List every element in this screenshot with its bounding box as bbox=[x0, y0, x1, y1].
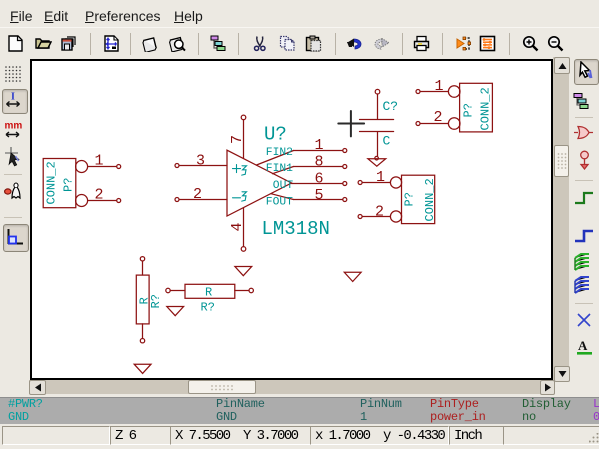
bottom plate bbox=[360, 131, 394, 133]
pin 1 FIN2 wire bbox=[294, 150, 343, 152]
svg-text:OUT: OUT bbox=[273, 180, 294, 192]
gnd triangle bbox=[368, 159, 386, 167]
pin 1 wire bbox=[362, 182, 390, 184]
pin 2 wire bbox=[235, 290, 249, 292]
ground symbol bottom left bbox=[134, 364, 151, 373]
svg-text:6: 6 bbox=[315, 170, 324, 187]
pin 1 end circle bbox=[166, 288, 170, 292]
pin 1 wire bbox=[142, 261, 144, 275]
connector body rectangle bbox=[460, 83, 493, 132]
svg-text:2: 2 bbox=[193, 186, 202, 203]
pin 2 wire (- input) bbox=[179, 199, 227, 201]
svg-text:P?: P? bbox=[462, 103, 476, 117]
connector P? CONN_2 (left) bbox=[43, 153, 121, 208]
horizontal scrollbar bbox=[29, 380, 553, 394]
svg-text:CONN_2: CONN_2 bbox=[479, 87, 493, 130]
top toolbar bbox=[0, 27, 599, 59]
minus input marker bbox=[233, 197, 241, 199]
pin 1 wire bbox=[420, 91, 448, 93]
pin 2 end circle bbox=[416, 122, 420, 126]
ground symbol below capacitor bbox=[368, 156, 386, 166]
pin 2 end circle bbox=[358, 215, 362, 219]
canvas with schematic bbox=[30, 59, 553, 380]
pin 2 bump bbox=[76, 195, 88, 207]
svg-text:C?: C? bbox=[383, 99, 399, 114]
pin 7 end circle bbox=[241, 115, 246, 120]
left toolbar bbox=[0, 58, 30, 380]
cursor crosshair bbox=[338, 111, 364, 136]
pin end circle bbox=[375, 156, 379, 160]
pin 2 end circle bbox=[117, 199, 121, 203]
pin 8 FIN1 diagonal bbox=[273, 167, 294, 174]
pin 5 FOUT wire bbox=[294, 199, 343, 201]
pin 1 bump bbox=[448, 86, 460, 98]
pin 2 bump bbox=[390, 211, 401, 222]
resistor body bbox=[136, 275, 149, 324]
pin 1 end circle bbox=[343, 149, 347, 153]
triangle body bbox=[227, 150, 292, 216]
pin 3 end circle bbox=[175, 164, 179, 168]
svg-text:1: 1 bbox=[435, 78, 444, 95]
svg-text:2: 2 bbox=[95, 187, 104, 204]
connector P? CONN_2 (middle right, mirrored) bbox=[358, 169, 437, 223]
pin 1 bump bbox=[390, 177, 401, 188]
pin 1 end circle bbox=[117, 165, 121, 169]
svg-text:4: 4 bbox=[229, 222, 246, 231]
plus input marker bbox=[233, 165, 241, 173]
svg-text:R?: R? bbox=[201, 301, 215, 315]
svg-text:CONN_2: CONN_2 bbox=[45, 161, 59, 204]
svg-text:R?: R? bbox=[149, 294, 163, 308]
pin 1 FIN2 diagonal bbox=[257, 151, 294, 166]
op-amp U? LM318N bbox=[175, 115, 347, 251]
pin 2 wire bbox=[420, 123, 448, 125]
pin 1 end circle bbox=[416, 90, 420, 94]
top plate bbox=[360, 119, 394, 121]
svg-text:3: 3 bbox=[196, 152, 205, 169]
svg-text:C: C bbox=[383, 134, 391, 149]
pin 1 end circle bbox=[140, 257, 144, 261]
pin 6 OUT wire bbox=[292, 183, 343, 185]
svg-text:5: 5 bbox=[315, 187, 324, 204]
pin 3 wire (+ input) bbox=[179, 165, 227, 167]
svg-text:1: 1 bbox=[315, 137, 324, 154]
svg-text:LM318N: LM318N bbox=[262, 218, 330, 240]
pin 4 wire (V-) bbox=[243, 208, 245, 247]
pin 6 end circle bbox=[343, 182, 347, 186]
pin 2 wire bbox=[377, 132, 379, 156]
pin 1 end circle bbox=[358, 181, 362, 185]
svg-text:FIN1: FIN1 bbox=[266, 163, 293, 175]
svg-text:A: A bbox=[578, 338, 588, 353]
connector body rectangle bbox=[43, 159, 76, 208]
pin name 2 glyph bbox=[242, 192, 247, 201]
resistor R? (horizontal) bbox=[166, 284, 254, 314]
svg-text:R: R bbox=[205, 286, 212, 300]
status bar bbox=[0, 424, 599, 449]
pin 8 FIN1 wire bbox=[294, 166, 343, 168]
pin 8 end circle bbox=[343, 165, 347, 169]
right toolbar bbox=[570, 58, 599, 380]
svg-text:U?: U? bbox=[264, 124, 287, 146]
svg-text:FIN2: FIN2 bbox=[266, 147, 293, 159]
resistor body bbox=[185, 284, 235, 298]
pin 2 end circle bbox=[175, 198, 179, 202]
svg-text:2: 2 bbox=[375, 203, 384, 220]
pin 5 end circle bbox=[343, 198, 347, 202]
svg-text:CONN_2: CONN_2 bbox=[423, 178, 437, 221]
vertical scrollbar bbox=[553, 57, 569, 380]
pin 2 end circle bbox=[249, 288, 253, 292]
pin 1 wire bbox=[377, 94, 379, 119]
svg-text:2: 2 bbox=[434, 109, 443, 126]
svg-text:I: I bbox=[11, 92, 15, 103]
pin 1 wire bbox=[88, 166, 117, 168]
pin 5 FOUT diagonal bbox=[271, 194, 294, 200]
ground symbol below op-amp pin 4 bbox=[235, 267, 252, 276]
svg-text:P?: P? bbox=[62, 178, 76, 192]
pin 2 bump bbox=[448, 118, 460, 130]
pin 1 wire bbox=[170, 290, 185, 292]
pin 4 end circle bbox=[241, 247, 246, 252]
svg-text:FOUT: FOUT bbox=[266, 197, 293, 209]
svg-text:P?: P? bbox=[403, 192, 417, 206]
pin 2 wire bbox=[362, 216, 390, 218]
ground symbol left of horizontal resistor bbox=[167, 307, 184, 316]
pin name 3 glyph bbox=[242, 166, 247, 175]
ground symbol right of op-amp area bbox=[344, 272, 361, 281]
pin 7 wire (V+) bbox=[243, 120, 245, 159]
svg-text:7: 7 bbox=[229, 135, 246, 144]
connector body rectangle bbox=[402, 175, 435, 223]
svg-text:8: 8 bbox=[315, 153, 324, 170]
pin 2 end circle bbox=[140, 339, 144, 343]
pin 2 wire bbox=[88, 200, 117, 202]
pin 2 wire bbox=[142, 324, 144, 339]
svg-text:1: 1 bbox=[95, 153, 104, 170]
menu bar bbox=[0, 0, 599, 27]
resistor R? (vertical) bbox=[136, 257, 163, 343]
message panel bbox=[0, 397, 599, 424]
svg-text:1: 1 bbox=[376, 169, 385, 186]
svg-text:mm: mm bbox=[5, 121, 23, 132]
pin 1 end circle bbox=[375, 89, 380, 94]
connector P? CONN_2 (top right, mirrored) bbox=[416, 78, 493, 132]
pin 1 bump bbox=[76, 161, 88, 173]
capacitor C? bbox=[360, 89, 399, 156]
